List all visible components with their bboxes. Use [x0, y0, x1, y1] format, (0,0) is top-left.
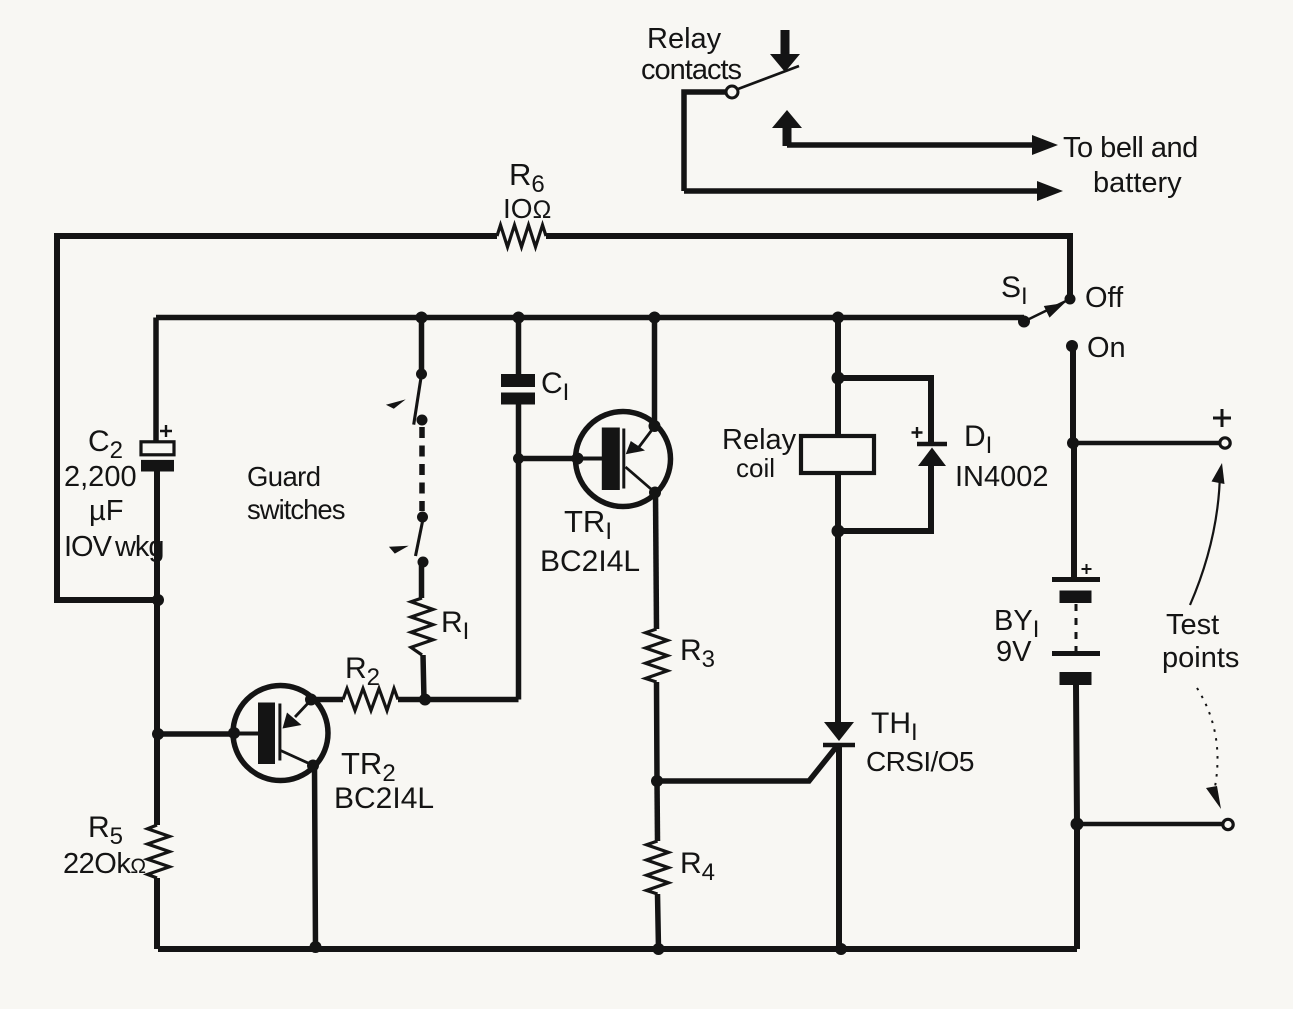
svg-text:Guard: Guard	[247, 461, 320, 492]
svg-text:9V: 9V	[996, 636, 1032, 668]
svg-text:Relay: Relay	[722, 424, 797, 456]
svg-text:IN4002: IN4002	[955, 461, 1049, 493]
svg-text:coil: coil	[736, 453, 775, 483]
svg-text:BC2I4L: BC2I4L	[540, 545, 640, 578]
svg-text:IOΩ: IOΩ	[503, 193, 551, 224]
svg-text:points: points	[1162, 642, 1239, 674]
svg-text:µF: µF	[89, 495, 123, 527]
svg-text:Relay: Relay	[647, 23, 722, 55]
svg-text:BC2I4L: BC2I4L	[334, 782, 434, 815]
svg-text:Test: Test	[1166, 609, 1219, 641]
svg-text:CRSI/O5: CRSI/O5	[866, 746, 974, 777]
svg-text:2,200: 2,200	[64, 461, 137, 493]
svg-text:TRI: TRI	[564, 504, 612, 545]
svg-text:contacts: contacts	[641, 54, 741, 86]
svg-text:On: On	[1087, 332, 1126, 364]
svg-text:battery: battery	[1093, 167, 1182, 199]
svg-text:switches: switches	[247, 494, 345, 525]
svg-text:Off: Off	[1085, 282, 1124, 314]
svg-text:To bell and: To bell and	[1063, 132, 1198, 164]
